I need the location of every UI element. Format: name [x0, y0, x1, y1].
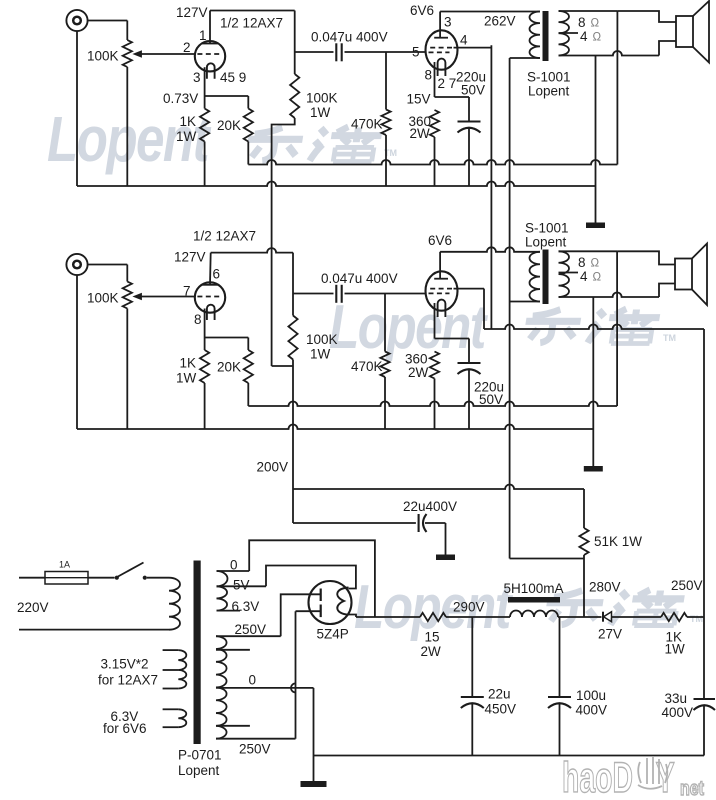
watermark CJK bottom — [543, 590, 685, 626]
wire secondary common to ground (ch1) — [595, 56, 597, 223]
svg-text:470K: 470K — [351, 359, 383, 374]
capacitor C 22u 400V (200V filter) — [418, 514, 420, 532]
ground symbol OPT secondary (ch2) — [584, 466, 603, 472]
svg-text:1/2 12AX7: 1/2 12AX7 — [193, 229, 256, 244]
svg-text:3.15V*2: 3.15V*2 — [101, 657, 149, 672]
wire 5V tap to 5Z4P filament — [266, 566, 356, 589]
svg-text:470K: 470K — [351, 117, 383, 132]
cathode hairpin 6V6 (ch2) — [438, 300, 446, 317]
svg-text:51K 1W: 51K 1W — [594, 534, 642, 549]
svg-text:haoD: haoD — [562, 753, 633, 800]
wire OPT primary bottom to B+ (ch1) — [510, 57, 540, 59]
wire 6V6 screen lead (ch1) — [454, 47, 492, 49]
ground bus (ch2) — [77, 425, 593, 430]
wire 100K bottom jog to 200V rail (ch1) — [272, 118, 295, 366]
wire OPT B+ to 280V node — [510, 558, 584, 560]
wire 33u400V top lead — [703, 617, 705, 699]
wire 12AX7 plate lead up (ch1) — [209, 11, 211, 44]
wire HV top to 5Z4P plate 1 — [281, 594, 321, 636]
svg-text:22u: 22u — [488, 687, 511, 702]
transformer heater winding 3.15V*2 for 12AX7 — [163, 649, 179, 651]
ground symbol OPT secondary (ch1) — [586, 223, 605, 229]
wire to coupling cap (ch1) — [295, 51, 334, 53]
tube V3 6V6 envelope — [426, 30, 458, 69]
svg-text:15V: 15V — [407, 92, 431, 107]
resistor R 1K 1W cathode (ch1) — [200, 109, 209, 142]
capacitor C 0.047u 400V (ch1) — [335, 43, 337, 61]
wire jack sleeve down to ground bus (ch1) — [76, 31, 78, 186]
svg-text:50V: 50V — [479, 392, 503, 407]
svg-text:400V: 400V — [576, 703, 608, 718]
wire wiper to grid (ch2) — [142, 296, 196, 298]
resistor R 1K 1W screen supply — [661, 613, 687, 621]
wire 250V line down right edge — [703, 329, 705, 617]
wire 51K bottom to 280V — [583, 555, 585, 617]
main ground rail — [314, 755, 705, 757]
wire 22u450V top lead — [471, 617, 473, 697]
wire 0 tap over to B+ output node — [249, 540, 375, 617]
wire 470K top lead (ch2) — [384, 294, 386, 352]
resistor R 360 2W cathode (ch1) — [430, 110, 439, 137]
wire coupling cap to 6V6 grid (ch2) — [345, 293, 426, 295]
wire 12AX7 cathode lead (ch1) — [204, 67, 206, 96]
capacitor C 220u 50V bypass (ch2) — [458, 362, 481, 364]
wire 6V6 cathode lead (ch1) — [434, 62, 436, 97]
wire coupling cap to 6V6 grid (ch1) — [345, 51, 426, 53]
svg-text:22u400V: 22u400V — [403, 499, 457, 514]
svg-text:Lopent: Lopent — [528, 84, 570, 99]
250V screen supply line — [484, 325, 704, 330]
wire center tap down to ground rail — [313, 688, 315, 756]
wire AC input bottom — [19, 629, 169, 631]
svg-text:0: 0 — [230, 558, 238, 573]
wire down to ground symbol — [445, 523, 447, 555]
wire pot bottom to ground bus (ch2) — [126, 309, 128, 430]
wire 100u400V top lead — [559, 617, 561, 697]
cathode hairpin 12AX7 (ch1) — [207, 63, 215, 78]
svg-text:4: 4 — [580, 29, 588, 44]
svg-text:4: 4 — [460, 33, 468, 48]
wire plate to B+ column, hops ch1 B+ line (ch2) — [211, 248, 293, 253]
wire HV bottom up to 5Z4P plate 2 (hops center tap) — [291, 611, 296, 739]
OPT primary winding T1 — [530, 12, 541, 58]
svg-text:2W: 2W — [421, 644, 442, 659]
ground bus (ch1) — [77, 182, 596, 187]
wire 20K bottom to feedback line (ch2) — [247, 383, 249, 406]
rectifier heater winding (5V-6.3V) — [217, 586, 228, 610]
HV winding stub 2 — [216, 725, 250, 727]
svg-text:290V: 290V — [453, 600, 485, 615]
wire 470K bottom to ground bus (ch2) — [384, 377, 386, 429]
resistor R 100K 1W plate load (ch2) — [288, 316, 297, 360]
svg-text:3: 3 — [193, 70, 201, 85]
svg-text:S-1001: S-1001 — [525, 221, 569, 236]
transformer HV winding 250-0-250 — [216, 636, 227, 738]
svg-text:7: 7 — [183, 284, 191, 299]
wire 220u top lead (ch1) — [468, 97, 470, 121]
svg-text:262V: 262V — [484, 14, 516, 29]
wire B+ 290V — [356, 616, 420, 618]
rectifier tube 5Z4P envelope — [309, 581, 352, 624]
svg-text:P-0701: P-0701 — [178, 748, 222, 763]
svg-text:6V6: 6V6 — [428, 233, 452, 248]
wire 20K top lead (ch1) — [247, 96, 249, 109]
wire 1K to 250V node — [687, 616, 704, 618]
wire B+ column upper (ch2) — [292, 253, 294, 316]
svg-text:3: 3 — [444, 15, 452, 30]
svg-text:2: 2 — [183, 40, 191, 55]
svg-text:Ω: Ω — [593, 32, 602, 44]
wire ch1 screen supply vertical (to 250V line) — [490, 45, 492, 329]
6.3V tap stub — [217, 610, 241, 612]
capacitor C 22u 450V — [461, 696, 484, 698]
svg-text:100K: 100K — [306, 332, 338, 347]
wire choke to 280V node — [558, 616, 602, 618]
wire 22u400V to ground — [425, 522, 446, 524]
transformer core P-0701 — [194, 561, 201, 745]
wire 6V6 screen lead (ch2) — [454, 288, 485, 290]
svg-text:220V: 220V — [17, 600, 49, 615]
wire pot top lead (ch1) — [126, 21, 128, 41]
svg-text:5V: 5V — [233, 578, 250, 593]
wire to main ground symbol — [313, 756, 315, 782]
grid dashed 12AX7 (ch1) — [197, 53, 222, 55]
svg-text:20K: 20K — [217, 118, 241, 133]
svg-text:400V: 400V — [662, 705, 694, 720]
svg-text:Ω: Ω — [591, 18, 600, 30]
watermark Lopent top — [47, 105, 212, 176]
choke L1 5H 100mA — [508, 597, 560, 603]
watermark CJK top — [244, 127, 383, 162]
wire OPT primary bottom to B+ (ch2) — [510, 301, 540, 303]
svg-text:Lopent: Lopent — [525, 235, 567, 250]
svg-text:1/2 12AX7: 1/2 12AX7 — [220, 16, 283, 31]
plate bar 6V6 (ch2) — [434, 278, 448, 280]
wire 6V6 cathode lead (ch2) — [434, 303, 436, 339]
wire jack tip to pot (ch2) — [88, 264, 128, 266]
wire plate to B+ column (ch1) — [210, 10, 295, 12]
svg-text:for 12AX7: for 12AX7 — [98, 673, 158, 688]
wire 200V down to filter cap — [292, 489, 294, 523]
wire speaker - terminal (ch2) — [659, 284, 675, 298]
4 ohm tap stub (ch2) — [559, 272, 579, 274]
svg-text:5Z4P: 5Z4P — [317, 627, 349, 642]
wire 1K top lead (ch2) — [204, 338, 206, 351]
pot wiper arrow (ch2) — [132, 293, 142, 301]
wire secondary common to ground (ch2) — [592, 297, 594, 466]
svg-text:5: 5 — [412, 45, 420, 60]
screen grid dashed 6V6 (ch2) — [430, 288, 453, 290]
wire 8 ohm to speaker + terminal (ch2) — [617, 251, 675, 264]
wire 360 bottom to ground bus (ch1) — [434, 137, 436, 186]
wire 220u top lead (ch2) — [468, 339, 470, 363]
svg-text:1W: 1W — [665, 642, 686, 657]
wire 20K bottom to feedback line (ch1) — [247, 142, 249, 165]
5Z4P filament — [337, 588, 348, 615]
resistor R 15 2W — [420, 613, 446, 621]
svg-text:5H100mA: 5H100mA — [504, 581, 564, 596]
5Z4P plates — [320, 589, 322, 602]
svg-text:50V: 50V — [461, 83, 485, 98]
watermark Lopent bottom — [354, 572, 513, 642]
wire diode to 1K — [612, 616, 662, 618]
input jack J1 — [66, 10, 87, 31]
wire ch1 B+ joins ch2 column — [272, 365, 293, 367]
feedback line (ch1) — [248, 160, 617, 165]
cathode hairpin 12AX7 (ch2) — [207, 305, 215, 320]
svg-text:6V6: 6V6 — [410, 3, 434, 18]
svg-text:100K: 100K — [306, 91, 338, 106]
wire 12AX7 cathode lead (ch2) — [204, 309, 206, 338]
plate bar 12AX7 (ch2) — [202, 284, 218, 286]
wire feedback from 8 ohm tap down (ch1) — [616, 11, 618, 165]
ground symbol 22u400V — [436, 555, 455, 561]
svg-text:0: 0 — [249, 673, 257, 688]
capacitor C 220u 50V bypass (ch1) — [458, 120, 481, 122]
watermark Lopent middle — [329, 292, 488, 362]
wire fuse to switch — [88, 577, 115, 579]
svg-text:1W: 1W — [176, 129, 197, 144]
wire wiper to grid (ch1) — [142, 53, 196, 55]
resistor R 100K 1W plate load (ch1) — [290, 74, 299, 118]
screen grid dashed 6V6 (ch1) — [430, 47, 453, 49]
plate bar 12AX7 (ch1) — [202, 43, 218, 45]
wire HV bottom 250V tap — [216, 738, 296, 740]
resistor R 20K feedback (ch1) — [244, 109, 253, 142]
wire 1K bottom to ground bus (ch2) — [204, 383, 206, 429]
wire to coupling cap (ch2) — [293, 293, 334, 295]
wire speaker - terminal (ch1) — [659, 41, 676, 56]
wire HV center tap 0 — [216, 687, 314, 689]
wire 470K top lead (ch1) — [385, 52, 387, 110]
wire 12AX7 plate lead up (ch2) — [209, 253, 212, 285]
wire 220u bottom to ground bus (ch2) — [468, 370, 470, 429]
wire 470K bottom to ground bus (ch1) — [385, 135, 387, 186]
svg-text:450V: 450V — [485, 702, 517, 717]
svg-text:1W: 1W — [176, 371, 197, 386]
wire 220u bottom to ground bus (ch1) — [468, 129, 470, 187]
svg-text:S-1001: S-1001 — [527, 70, 571, 85]
capacitor C 0.047u 400V (ch2) — [335, 285, 337, 303]
wire 6V6 plate to OPT primary, hops B+ verticals (ch2) — [440, 247, 540, 252]
input jack J2 — [66, 254, 87, 275]
wire 6V6 cathode node (ch2) — [435, 338, 470, 340]
svg-text:100K: 100K — [87, 49, 119, 64]
switch S1 — [115, 576, 119, 580]
svg-text:TM: TM — [690, 614, 703, 624]
svg-text:45 9: 45 9 — [220, 70, 246, 85]
resistor R 470K grid (ch1) — [381, 110, 390, 136]
speaker SP2 — [675, 259, 692, 290]
wire cathode node (ch1) — [205, 95, 249, 97]
wire 5V tap — [217, 585, 267, 587]
wire OPT B+ vertical (280V) — [509, 58, 511, 559]
svg-text:20K: 20K — [217, 360, 241, 375]
capacitor C 100u 400V — [548, 696, 571, 698]
cathode hairpin 6V6 (ch1) — [438, 59, 446, 76]
wire 1K top lead (ch1) — [204, 96, 206, 109]
svg-text:1K: 1K — [180, 356, 197, 371]
wire secondary top (8 ohm tap) (ch2) — [559, 250, 618, 252]
wire 51K top lead — [583, 489, 585, 528]
wire secondary bottom / speaker return (ch2) — [559, 293, 660, 298]
svg-text:0.73V: 0.73V — [163, 91, 198, 106]
svg-text:1: 1 — [199, 28, 207, 43]
wire to 22u 400V cap — [293, 522, 416, 524]
svg-text:2W: 2W — [408, 365, 429, 380]
svg-text:Ω: Ω — [591, 258, 600, 270]
grid dashed 12AX7 (ch2) — [197, 296, 222, 298]
wire AC input top — [19, 577, 45, 579]
tube V4 6V6 envelope — [426, 271, 458, 310]
svg-text:TM: TM — [663, 333, 676, 343]
rectifier heater winding (0-5V) — [217, 571, 228, 586]
svg-text:127V: 127V — [176, 5, 208, 20]
plate bar 6V6 (ch1) — [434, 37, 448, 39]
svg-text:100u: 100u — [576, 688, 606, 703]
wire cathode node (ch2) — [205, 337, 249, 339]
svg-text:200V: 200V — [257, 460, 289, 475]
wire 6V6 plate lead up (ch2) — [439, 252, 441, 279]
diode D1 27V drop — [602, 612, 604, 622]
wire secondary top (8 ohm tap) (ch1) — [559, 10, 618, 12]
svg-text:8: 8 — [425, 68, 433, 83]
svg-text:15: 15 — [425, 630, 440, 645]
wire 6V6 cathode node (ch1) — [435, 96, 470, 98]
triode V2A 1/2 12AX7 envelope — [195, 282, 225, 312]
wire 6V6 plate lead up (ch1) — [439, 12, 441, 38]
svg-text:127V: 127V — [174, 250, 206, 265]
wire filament bottom to B+ out — [349, 615, 357, 618]
svg-text:8: 8 — [194, 312, 202, 327]
wire 290V to choke — [446, 616, 510, 618]
svg-text:1W: 1W — [310, 347, 331, 362]
200V rail — [293, 485, 584, 489]
svg-text:100K: 100K — [87, 291, 119, 306]
svg-text:27V: 27V — [598, 627, 622, 642]
potentiometer 100K VR2 — [123, 282, 132, 309]
svg-text:0.047u 400V: 0.047u 400V — [321, 271, 398, 286]
wire ch2 screen down to 250V line — [483, 289, 485, 329]
resistor R 1K 1W cathode (ch2) — [200, 350, 209, 383]
wire 1K bottom to ground bus (ch1) — [204, 142, 206, 187]
svg-text:Ω: Ω — [593, 272, 602, 284]
wire 22u450V bottom lead — [471, 704, 473, 756]
svg-text:33u: 33u — [665, 691, 688, 706]
OPT primary winding T2 — [530, 252, 541, 302]
svg-text:6.3V: 6.3V — [232, 599, 260, 614]
transformer T-PWR primary winding 220V — [169, 578, 180, 630]
4 ohm tap stub (ch1) — [559, 32, 579, 34]
control grid dashed 6V6 (ch2) — [429, 292, 450, 294]
transformer heater winding 6.3V for 6V6 — [163, 708, 179, 710]
svg-text:net: net — [680, 777, 704, 799]
OPT core T2 — [543, 250, 549, 305]
feedback line (ch2) — [248, 402, 617, 407]
wire B+ column upper (ch1) — [294, 11, 296, 75]
svg-text:250V: 250V — [671, 578, 703, 593]
svg-text:0.047u 400V: 0.047u 400V — [311, 30, 388, 45]
wire 6V6 plate to OPT primary (ch1) — [440, 11, 540, 13]
wire pot top lead (ch2) — [126, 265, 128, 282]
wire feedback from 8 ohm tap down (ch2) — [616, 251, 618, 406]
wire pot bottom to ground bus (ch1) — [126, 67, 128, 186]
wire HV top 250V tap — [216, 635, 281, 637]
OPT core T1 — [543, 11, 549, 61]
svg-text:8: 8 — [578, 15, 586, 30]
svg-text:250V: 250V — [239, 742, 271, 757]
svg-text:for 6V6: for 6V6 — [103, 721, 147, 736]
triode V1A 1/2 12AX7 envelope — [195, 41, 225, 71]
svg-text:Lopent: Lopent — [178, 763, 220, 778]
svg-text:2W: 2W — [410, 126, 431, 141]
speaker SP1 — [676, 16, 693, 47]
resistor R 360 2W cathode (ch2) — [430, 352, 439, 379]
wire jack tip to pot (ch1) — [88, 20, 128, 22]
potentiometer 100K VR1 — [123, 40, 132, 67]
wire jack sleeve down to ground bus (ch2) — [76, 275, 78, 429]
watermark haoDIY.net bottom right — [562, 753, 704, 800]
svg-text:2 7: 2 7 — [438, 76, 457, 91]
control grid dashed 6V6 (ch1) — [429, 51, 450, 53]
wire 100K bottom down to 200V rail (ch2) — [292, 360, 294, 490]
resistor R 20K feedback (ch2) — [244, 350, 253, 383]
svg-text:1A: 1A — [59, 560, 70, 570]
wire secondary bottom / speaker return (ch1) — [559, 51, 660, 56]
OPT secondary winding T1 — [559, 11, 570, 55]
capacitor C 33u 400V — [694, 698, 716, 700]
watermark CJK middle — [522, 309, 661, 344]
pot wiper arrow (ch1) — [132, 50, 142, 58]
ground symbol main — [301, 781, 327, 787]
wire 100u400V bottom lead — [559, 704, 561, 756]
wire 33u400V bottom lead — [703, 706, 705, 756]
svg-text:1K: 1K — [180, 114, 197, 129]
svg-text:1W: 1W — [310, 105, 331, 120]
resistor R 470K grid (ch2) — [380, 352, 389, 378]
wire 8 ohm to speaker + terminal (ch1) — [617, 11, 676, 22]
svg-text:6: 6 — [213, 267, 221, 282]
wire 360 bottom to ground bus (ch2) — [434, 379, 436, 430]
wire 20K top lead (ch2) — [247, 338, 249, 351]
svg-text:250V: 250V — [235, 622, 267, 637]
wire switch to primary — [147, 577, 169, 579]
svg-text:4: 4 — [580, 269, 588, 284]
svg-text:280V: 280V — [589, 580, 621, 595]
OPT secondary winding T2 — [559, 251, 570, 297]
switch lever — [118, 563, 144, 577]
wire to 5Z4P plate 2 — [296, 610, 321, 612]
resistor R 51K 1W dropper — [579, 528, 588, 555]
wire 0 tap — [217, 570, 250, 572]
svg-text:8: 8 — [578, 255, 586, 270]
HV winding stub 1 — [216, 649, 250, 651]
